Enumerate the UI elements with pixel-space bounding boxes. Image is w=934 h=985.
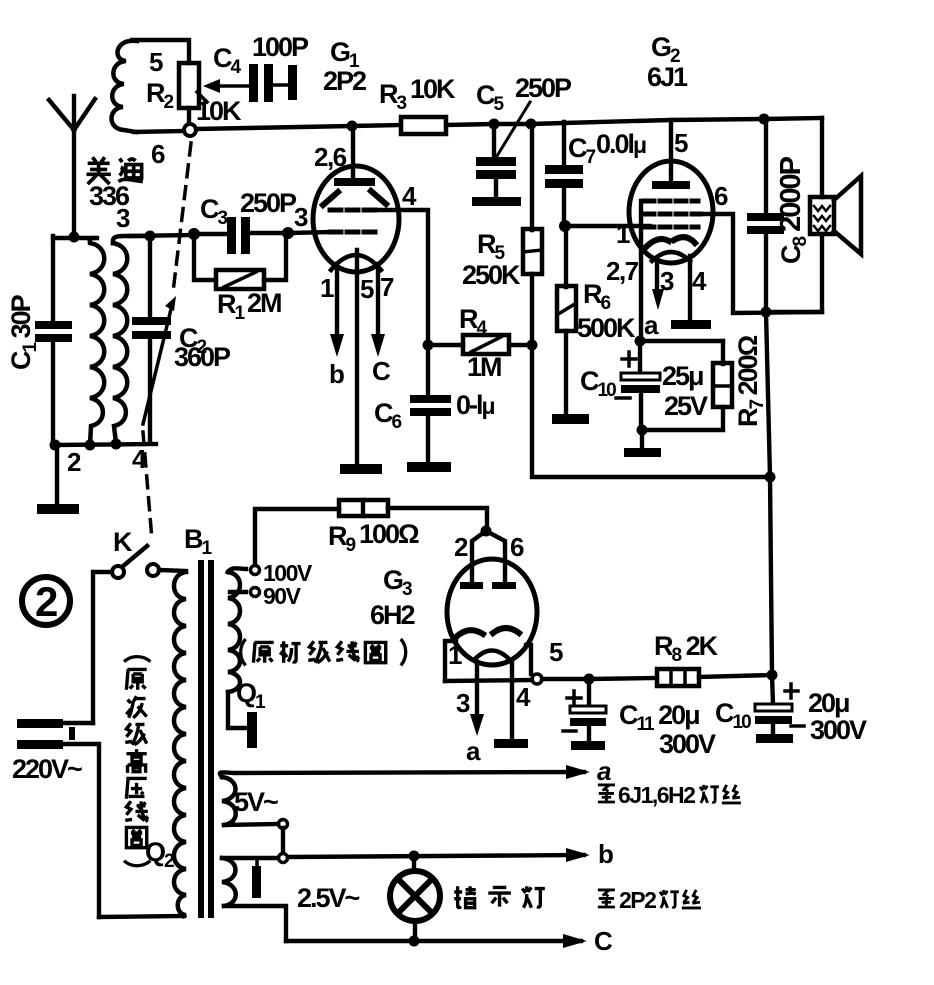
- svg-text:C1 30P: C1 30P: [6, 294, 41, 370]
- minus C10b: [791, 724, 804, 728]
- ground C10a: [624, 448, 661, 457]
- wire plug top: [63, 721, 93, 725]
- capacitor C10b electrolytic: [755, 675, 798, 736]
- wire G2 grid2,7 internal: [639, 201, 643, 341]
- resistor R3: [401, 117, 446, 134]
- wire R8 left lead: [590, 678, 657, 679]
- label lamp 指示灯: [454, 886, 545, 907]
- terminal bar C4: [288, 65, 297, 100]
- capacitor C11 electrolytic: [570, 679, 606, 743]
- wire C8 upper: [764, 119, 768, 215]
- wire ground stem left: [55, 445, 59, 506]
- wire G2 pin1 grid lead: [565, 224, 650, 228]
- ground G1 pin5: [340, 464, 382, 474]
- wire G3 pin5 bracket: [526, 645, 531, 674]
- ground C10b: [756, 734, 793, 743]
- svg-text:2: 2: [35, 578, 58, 625]
- coil B1 2.5V winding: [222, 858, 236, 906]
- wire 2.5V bottom lead: [224, 906, 286, 941]
- wire G2 pin4: [688, 256, 692, 321]
- wire speaker bottom drop: [766, 234, 822, 312]
- wire grid to G1: [290, 232, 332, 233]
- svg-text:100P: 100P: [252, 32, 309, 62]
- ground R6: [552, 414, 589, 424]
- minus C11: [563, 729, 576, 733]
- wire G1 plate drop: [351, 126, 355, 181]
- wire G1 pin4: [376, 210, 428, 345]
- node 2,7 junction: [635, 336, 646, 347]
- wire R7 upper: [721, 341, 725, 364]
- svg-text:C: C: [594, 926, 613, 956]
- tube G1 envelope: [313, 166, 399, 272]
- node C8 bottom: [761, 307, 772, 318]
- wire bottom node 2-4: [55, 444, 156, 445]
- wire 5V bottom lead: [224, 824, 278, 825]
- svg-text:b: b: [598, 839, 613, 869]
- wire G3 pin1 bracket: [445, 641, 456, 681]
- capacitor C4: [249, 64, 273, 102]
- wire C2 upper: [148, 236, 152, 319]
- ground 2.5V bar: [252, 858, 261, 898]
- capacitor C7: [545, 165, 583, 188]
- svg-text:6: 6: [510, 532, 524, 562]
- arrow pin7 C: [371, 334, 385, 357]
- ground G3 pin4: [494, 739, 528, 748]
- arrow heater b: [566, 848, 590, 862]
- node G3 plates: [481, 526, 492, 537]
- wire C6 lower: [426, 416, 430, 463]
- switch K: [112, 546, 159, 578]
- wire B+ drop: [766, 312, 770, 477]
- terminal 2.5V top: [279, 854, 288, 863]
- node C8 top: [759, 114, 770, 125]
- svg-text:5V~: 5V~: [234, 787, 278, 817]
- svg-text:2,6: 2,6: [314, 142, 347, 172]
- tube G2 grid dashes row2: [644, 212, 700, 217]
- wire lamp top stem: [412, 856, 416, 871]
- wire R4 right lead: [509, 343, 532, 347]
- svg-text:20μ: 20μ: [808, 688, 849, 718]
- wire C4 right: [273, 83, 289, 87]
- svg-text:250P: 250P: [240, 188, 297, 218]
- wire R4 branch to rail: [532, 345, 770, 477]
- wire R5 upper: [530, 124, 534, 230]
- wire C5 stem: [492, 124, 496, 160]
- node G1 plate tap: [347, 121, 358, 132]
- svg-text:K: K: [113, 527, 133, 557]
- node lamp top: [409, 851, 420, 862]
- svg-text:500K: 500K: [577, 313, 636, 343]
- svg-text:4: 4: [402, 181, 417, 211]
- node C10a ground junction: [637, 425, 648, 436]
- node C7 grid junction: [559, 220, 571, 232]
- coil L1b secondary: [113, 243, 127, 443]
- node C11 top: [584, 674, 595, 685]
- svg-text:2,7: 2,7: [606, 256, 639, 286]
- resistor R9: [339, 500, 388, 516]
- svg-text:b: b: [329, 359, 344, 389]
- wire C10a lower: [639, 393, 643, 430]
- wire L2 top to R2: [132, 40, 189, 63]
- svg-text:25μ: 25μ: [662, 361, 703, 391]
- wire R8 right lead: [699, 675, 772, 677]
- potentiometer R2: [179, 63, 199, 108]
- wire speaker top drop: [820, 118, 824, 197]
- svg-text:4: 4: [132, 444, 147, 474]
- svg-text:5: 5: [674, 128, 688, 158]
- svg-text:1M: 1M: [467, 352, 501, 382]
- tube G1 screen diagonals: [323, 191, 386, 205]
- svg-text:2M: 2M: [247, 288, 281, 318]
- svg-text:220V~: 220V~: [12, 754, 82, 784]
- svg-text:2.5V~: 2.5V~: [297, 883, 360, 913]
- wire R6 upper: [564, 226, 568, 287]
- wire K right to primary: [159, 570, 186, 571]
- svg-text:5: 5: [549, 637, 563, 667]
- label heater b note: [598, 887, 701, 913]
- node R8 right: [767, 670, 778, 681]
- terminal bar C5: [472, 197, 521, 206]
- wire L1b top lead: [113, 236, 150, 243]
- node 4: [111, 439, 122, 450]
- wire C10a stem: [638, 341, 642, 374]
- wire C3 right: [250, 231, 293, 235]
- svg-text:5: 5: [149, 47, 163, 77]
- svg-text:a: a: [644, 310, 659, 340]
- tube G2 cathode arcs: [646, 237, 695, 247]
- svg-text:250K: 250K: [462, 260, 521, 290]
- node C5 tap: [489, 119, 500, 130]
- tube G1 cathode dome: [331, 255, 381, 270]
- arrow pin3 a: [652, 289, 664, 310]
- node rail right: [765, 472, 776, 483]
- svg-text:2: 2: [454, 532, 468, 562]
- terminal 5V bottom: [279, 820, 288, 829]
- wire G1 pin1 heater: [335, 264, 339, 338]
- arrow pin1 b: [330, 334, 344, 357]
- wire R2 wiper arrow: [203, 79, 249, 93]
- wire R1 loop: [194, 233, 286, 280]
- coil B1 5V winding: [222, 777, 236, 825]
- tube G3 plate bars: [460, 582, 516, 589]
- wire G2 pin6 lead: [700, 214, 822, 313]
- wire C7 stem: [562, 122, 566, 167]
- label coil 美通 336 3: [86, 157, 110, 184]
- wire C8 lower: [764, 234, 768, 313]
- speaker: [810, 176, 861, 254]
- capacitor C5: [476, 157, 516, 179]
- capacitor C1: [35, 321, 72, 342]
- svg-text:90V: 90V: [263, 583, 302, 609]
- capacitor C3: [227, 217, 250, 254]
- minus C10a: [616, 396, 630, 400]
- wire G3 plate legs: [472, 531, 505, 583]
- transformer B1 core: [198, 560, 214, 918]
- wire dashed gang link lower: [143, 432, 152, 540]
- wire 90V tap: [230, 590, 246, 594]
- arrow heater a: [566, 765, 590, 779]
- wire C10a R7 loop top: [640, 339, 723, 343]
- svg-text:25V: 25V: [664, 391, 708, 421]
- svg-text:1: 1: [320, 273, 334, 303]
- wire C2 lower: [148, 340, 152, 443]
- svg-text:6J1: 6J1: [647, 62, 688, 92]
- ground left: [37, 504, 79, 514]
- svg-text:10K: 10K: [196, 96, 242, 126]
- svg-text:2P2: 2P2: [619, 887, 656, 913]
- resistor R7: [713, 363, 732, 407]
- wire dashed gang link upper: [173, 143, 191, 292]
- svg-text:4: 4: [516, 682, 531, 712]
- svg-text:a: a: [597, 756, 611, 786]
- label secondary coil text: [241, 639, 406, 665]
- wire heater b line: [288, 855, 584, 857]
- ground C11: [571, 741, 605, 750]
- wire Q1 lead: [228, 692, 246, 728]
- tube G2 dome: [652, 252, 690, 261]
- plug divider tick: [69, 727, 75, 740]
- node C2 tap: [145, 231, 156, 242]
- svg-text:3: 3: [456, 688, 470, 718]
- wire L2 bottom to node 6: [134, 131, 184, 132]
- wire lamp bottom stem: [413, 921, 417, 941]
- svg-text:6: 6: [151, 139, 165, 169]
- wire G1 pin5 cathode: [355, 250, 359, 465]
- svg-text:C: C: [372, 356, 391, 386]
- wire C3 left: [194, 232, 229, 236]
- node R4 right: [527, 340, 538, 351]
- resistor R4: [463, 335, 509, 354]
- svg-text:R8 2K: R8 2K: [654, 631, 719, 666]
- wire C7 lower: [562, 188, 566, 226]
- wire G1 pin7 heater: [376, 264, 380, 338]
- svg-text:C8 2000P: C8 2000P: [775, 156, 811, 264]
- wire line A cont: [446, 118, 822, 125]
- node L1a bottom: [85, 440, 96, 451]
- potentiometer R2 wiper tick: [197, 92, 207, 102]
- svg-text:250P: 250P: [515, 73, 572, 103]
- capacitor C6: [410, 395, 451, 416]
- tube G3 envelope: [447, 559, 537, 665]
- wire G3 pin4: [510, 663, 514, 740]
- tube G1 grid dashes row2: [330, 230, 376, 235]
- wire 2.5V top lead: [222, 856, 278, 860]
- svg-text:0.0lμ: 0.0lμ: [596, 129, 646, 159]
- svg-text:6H2: 6H2: [370, 600, 415, 630]
- wire C6 stem: [426, 345, 430, 396]
- wire C5 label pointer: [497, 102, 530, 156]
- tube G2 grid dashes row1: [644, 199, 698, 204]
- wire C1 lower: [51, 342, 55, 447]
- wire ground stem C10a: [640, 430, 644, 450]
- wire R4 left lead: [428, 343, 463, 347]
- node C3 left: [188, 228, 200, 240]
- terminal 90V: [251, 588, 260, 597]
- wire R9 left riser: [255, 509, 339, 565]
- wire R6 lower: [564, 331, 568, 413]
- wire R7 lower: [643, 407, 723, 430]
- wire R5 lower: [530, 274, 534, 345]
- plug 220V top prong: [17, 719, 63, 728]
- svg-text:3: 3: [660, 266, 674, 296]
- arrow heater c: [563, 934, 587, 948]
- wire C1 upper: [51, 236, 55, 323]
- tube G3 cathode arcs: [456, 628, 519, 637]
- wire B+ drop lower: [770, 477, 772, 675]
- capacitor C8: [747, 213, 784, 234]
- wire plug bottom: [63, 744, 99, 917]
- tube G2 plate bar: [652, 181, 690, 189]
- wire primary bottom: [99, 916, 184, 917]
- resistor R5: [523, 229, 542, 274]
- wire tuning link arrow through C2: [143, 296, 176, 424]
- wire terminal link: [281, 828, 285, 853]
- node lamp bottom: [409, 936, 420, 947]
- tube G1 plate bar: [334, 178, 375, 186]
- svg-text:7: 7: [380, 272, 394, 302]
- wire heater c line: [286, 939, 581, 943]
- svg-text:0-lμ: 0-lμ: [456, 390, 495, 420]
- node 6 terminal: [184, 124, 196, 136]
- wire G3 pin3 heater: [475, 662, 479, 716]
- node 2: [50, 440, 61, 451]
- node C3 right / grid: [282, 227, 294, 239]
- svg-text:6: 6: [714, 181, 728, 211]
- wire G2 pin5 plate drop: [669, 120, 673, 184]
- svg-text:R7 200Ω: R7 200Ω: [733, 335, 768, 427]
- ground Q1 vertical bar: [247, 712, 257, 748]
- plus C10a: [622, 352, 636, 366]
- resistor R8: [657, 669, 699, 686]
- svg-text:4: 4: [692, 266, 707, 296]
- plus C11: [567, 691, 581, 705]
- wire R2 lower: [187, 108, 191, 126]
- arrow pin3 a2: [470, 714, 484, 736]
- wire 5V top lead / heater a line: [220, 772, 584, 777]
- coil B1 HV secondary: [228, 572, 240, 692]
- ground C6: [407, 462, 451, 472]
- resistor R6: [557, 286, 576, 331]
- svg-text:1: 1: [448, 640, 462, 670]
- ground G2 pin4: [671, 320, 711, 329]
- svg-text:100Ω: 100Ω: [359, 519, 419, 549]
- label primary coil vertical text: [124, 657, 150, 866]
- antenna: [49, 96, 95, 237]
- svg-text:360P: 360P: [174, 342, 231, 372]
- badge circled 2: [22, 577, 70, 625]
- tube G3 dome: [474, 651, 510, 661]
- terminal 100V: [251, 566, 260, 575]
- label heater a note: [598, 782, 741, 808]
- wire antenna top: [53, 236, 97, 240]
- wire G2 pin3 heater: [655, 258, 659, 292]
- lamp indicator: [390, 871, 440, 921]
- svg-text:1: 1: [616, 219, 630, 249]
- svg-text:3: 3: [116, 203, 130, 233]
- coil B1 primary: [174, 572, 186, 916]
- terminal G3 pin5: [532, 674, 542, 684]
- svg-text:10K: 10K: [410, 74, 456, 104]
- resistor R1: [216, 270, 264, 289]
- wire G3 cathode rail: [445, 679, 589, 681]
- wire main supply line A: [196, 125, 401, 129]
- capacitor C2 variable: [132, 317, 171, 339]
- wire C5 lower stub: [494, 179, 498, 198]
- wire K left leg: [93, 572, 112, 723]
- wire 100V lead: [228, 568, 246, 572]
- node R4 left: [423, 340, 434, 351]
- tube G2 grid dashes row3: [644, 225, 698, 230]
- svg-text:a: a: [466, 736, 481, 766]
- svg-text:6J1,6H2: 6J1,6H2: [618, 782, 695, 808]
- svg-text:2: 2: [67, 447, 81, 477]
- node antenna junction: [69, 232, 80, 243]
- svg-text:5: 5: [360, 274, 374, 304]
- svg-text:300V: 300V: [659, 729, 716, 759]
- plug 220V bottom prong: [17, 740, 63, 749]
- svg-text:300V: 300V: [810, 715, 867, 745]
- svg-text:3: 3: [294, 202, 308, 232]
- coil L2 feedback: [112, 41, 138, 132]
- wire R9 right to G3: [388, 508, 487, 530]
- coil L1a primary: [90, 238, 105, 445]
- tube G2 envelope: [629, 161, 713, 263]
- tube G1 grid dashes row1: [330, 208, 376, 213]
- svg-text:2P2: 2P2: [323, 66, 366, 96]
- capacitor C10a electrolytic: [621, 373, 660, 393]
- wire node3 top: [129, 235, 196, 236]
- node R5 tap: [526, 119, 537, 130]
